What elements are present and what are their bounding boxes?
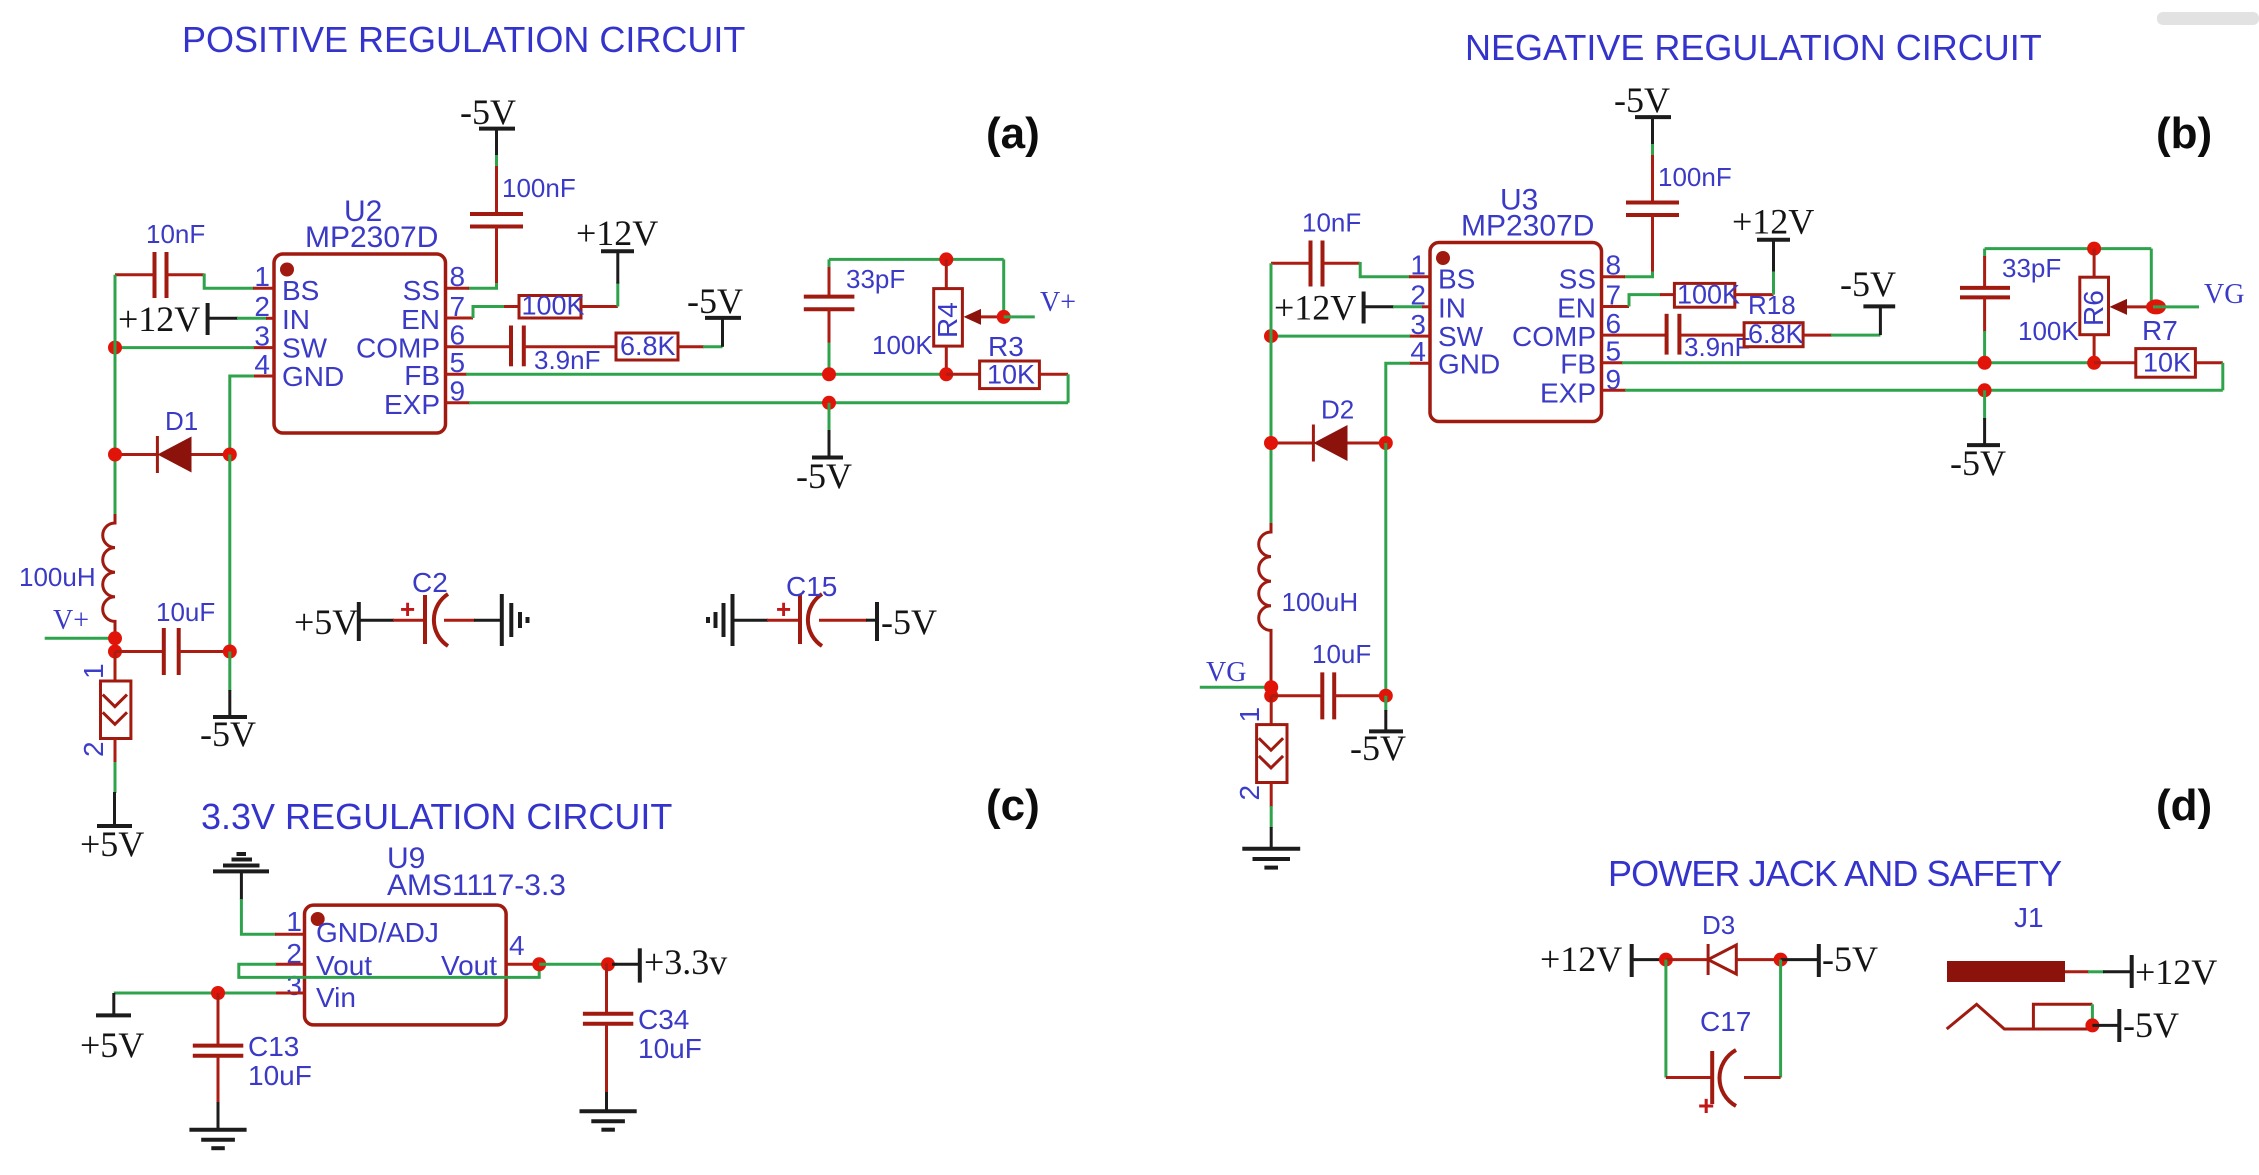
svg-text:V+: V+ [53, 605, 89, 636]
capacitor 100nF [470, 173, 576, 227]
svg-text:-5V: -5V [1822, 939, 1878, 979]
svg-text:AMS1117-3.3: AMS1117-3.3 [387, 869, 566, 902]
wire EXP net [446, 401, 1069, 404]
power +12V (left of D3) [1540, 939, 1666, 979]
power -5V (right of 6.8K) [687, 281, 743, 347]
node Vin/C13 [211, 986, 225, 1000]
resistor 100K (pin7 to +12V b) [1602, 280, 1774, 310]
svg-text:1: 1 [1234, 707, 1265, 723]
svg-text:100K: 100K [872, 330, 933, 360]
node FB/33pF [822, 367, 836, 381]
svg-text:VG: VG [1206, 657, 1246, 688]
node wiper [997, 310, 1011, 324]
svg-text:FB: FB [1560, 349, 1596, 380]
svg-text:1: 1 [78, 663, 109, 679]
wire left rail vertical (b) [1270, 263, 1273, 523]
ground (C15 left, chassis bars) [708, 594, 768, 646]
power +3.3v [612, 942, 727, 983]
svg-text:C13: C13 [248, 1031, 299, 1062]
svg-text:(d): (d) [2156, 781, 2212, 830]
node VG label [1200, 657, 1271, 688]
ground (below fuse b, earth) [1242, 827, 1300, 868]
power -5V (C15 right) [866, 602, 937, 642]
svg-text:R7: R7 [2142, 315, 2178, 346]
capacitor 10uF [115, 597, 230, 675]
svg-text:100uH: 100uH [19, 562, 96, 592]
scrollbar artifact top right [2157, 12, 2259, 25]
svg-text:C15: C15 [786, 571, 837, 602]
regulator IC U3 MP2307D [1410, 184, 1621, 422]
capacitor 33pF (b) [1960, 249, 2061, 363]
node top loop (b) [2087, 242, 2101, 256]
svg-text:10uF: 10uF [1312, 639, 1371, 669]
svg-text:SW: SW [282, 333, 328, 364]
svg-text:-5V: -5V [881, 602, 937, 642]
svg-text:+3.3v: +3.3v [644, 942, 727, 982]
ground (C2 right, chassis bars) [474, 594, 528, 646]
inductor 100uH (b) [1259, 523, 1358, 688]
node junction VG [1264, 680, 1278, 694]
wire top loop (33pF/R6) [1985, 247, 2152, 250]
power +5V (bottom of fuse) [80, 792, 144, 864]
svg-text:BS: BS [282, 275, 319, 306]
node V+ label [45, 605, 115, 638]
wire R4 wiper loop [1002, 259, 1005, 317]
fuse F2 (b) [1234, 696, 1287, 807]
svg-text:10uF: 10uF [638, 1033, 702, 1064]
svg-text:D2: D2 [1321, 395, 1354, 425]
svg-text:POWER JACK AND SAFETY: POWER JACK AND SAFETY [1608, 853, 2062, 894]
svg-text:100K: 100K [2018, 316, 2079, 346]
svg-text:COMP: COMP [1512, 321, 1596, 352]
regulator IC U2 MP2307D [254, 195, 465, 433]
capacitor 100nF (b) [1626, 162, 1732, 215]
node D3 right [1774, 953, 1788, 967]
svg-text:+: + [1698, 1090, 1714, 1121]
wire -5V to 100nF [495, 155, 498, 167]
svg-text:GND/ADJ: GND/ADJ [316, 917, 439, 948]
svg-text:-5V: -5V [200, 714, 256, 754]
node EXP drop [822, 396, 836, 410]
svg-text:FB: FB [404, 360, 440, 391]
capacitor C17 [1666, 960, 1781, 1121]
wire GND rail vertical (b) [1384, 443, 1387, 696]
svg-text:EN: EN [1557, 293, 1596, 324]
svg-text:MP2307D: MP2307D [305, 221, 438, 254]
node D2 left [1264, 436, 1278, 450]
svg-text:IN: IN [1438, 293, 1466, 324]
node top loop [939, 252, 953, 266]
svg-text:EXP: EXP [1540, 378, 1596, 409]
resistor R3 10K [946, 331, 1068, 390]
ground (C13, earth) [189, 1102, 246, 1148]
resistor 100K (pin7 to +12V) [446, 291, 618, 321]
svg-text:R6: R6 [2078, 290, 2109, 326]
node D1 left [108, 448, 122, 462]
wire FB net [446, 373, 947, 376]
svg-text:3.3V REGULATION CIRCUIT: 3.3V REGULATION CIRCUIT [201, 796, 672, 837]
potentiometer R4 100K [872, 259, 1004, 374]
power -5V (below EXP) [796, 403, 852, 496]
svg-text:1: 1 [286, 906, 302, 937]
svg-text:10K: 10K [2143, 348, 2191, 378]
svg-text:COMP: COMP [356, 333, 440, 364]
power +5V (feeding Vin) [80, 993, 144, 1065]
svg-text:4: 4 [509, 930, 525, 961]
svg-text:-5V: -5V [1950, 443, 2006, 483]
power -5V (right of 6.8K b) [1831, 264, 1896, 335]
node 10uF right [223, 645, 237, 659]
capacitor 3.9nF [446, 326, 617, 376]
resistor 6.8K [616, 331, 704, 361]
power +12V (left b) [1274, 288, 1394, 328]
svg-text:-5V: -5V [796, 456, 852, 496]
node FB/R4 [939, 367, 953, 381]
svg-text:3.9nF: 3.9nF [534, 345, 601, 375]
svg-text:(b): (b) [2156, 109, 2212, 158]
wire pin3 SW to rail (b) [1271, 335, 1430, 338]
wire top loop (33pF/R4) [829, 258, 1004, 261]
node D3 left [1659, 953, 1673, 967]
capacitor C13 10uF [193, 993, 312, 1103]
power -5V (below 10uF) [200, 652, 256, 755]
svg-text:10uF: 10uF [248, 1060, 312, 1091]
svg-text:-5V: -5V [1350, 728, 1406, 768]
svg-text:+5V: +5V [80, 1025, 144, 1065]
resistor R7 10K [2094, 315, 2223, 378]
svg-text:+12V: +12V [2135, 952, 2217, 992]
diode D3 [1666, 910, 1781, 975]
inductor 100uH [19, 514, 115, 639]
wire Vin net [114, 992, 276, 995]
svg-text:100K: 100K [1677, 280, 1740, 310]
svg-text:2: 2 [1234, 785, 1265, 801]
svg-text:+12V: +12V [118, 299, 200, 339]
svg-text:R18: R18 [1748, 290, 1796, 320]
node junction V+ [108, 631, 122, 645]
wire pin3 SW to rail [115, 346, 274, 349]
wire 10nF right to pin1 BS [167, 274, 275, 289]
wire fuse to ground (b) [1270, 806, 1273, 828]
capacitor 10nF [146, 219, 205, 298]
wire +12V to pin2 IN (b) [1393, 305, 1430, 308]
svg-text:C2: C2 [412, 567, 448, 598]
capacitor C34 10uF [583, 963, 702, 1093]
svg-text:33pF: 33pF [2002, 253, 2061, 283]
diode D1 [115, 406, 230, 473]
svg-text:MP2307D: MP2307D [1461, 210, 1594, 243]
svg-text:3: 3 [286, 970, 302, 1001]
svg-text:2: 2 [78, 741, 109, 757]
node SW rail junction (b) [1264, 329, 1278, 343]
power +12V (left) [118, 299, 238, 339]
svg-text:10uF: 10uF [156, 597, 215, 627]
node 10uF right (b) [1379, 689, 1393, 703]
svg-text:SW: SW [1438, 321, 1484, 352]
node D2 right [1379, 436, 1393, 450]
svg-text:C34: C34 [638, 1004, 689, 1035]
node SW rail junction [108, 341, 122, 355]
capacitor 10nF (b) [1302, 208, 1361, 287]
wire 100nF to pin8 SS (b) [1602, 215, 1653, 277]
node V+ (right) [1004, 287, 1076, 318]
svg-text:EN: EN [401, 304, 440, 335]
wire 10nF left to rail (b) [1271, 262, 1311, 265]
node pin4 [532, 957, 546, 971]
wire R6 wiper loop [2150, 249, 2153, 307]
fuse F1 [78, 652, 131, 764]
svg-text:8: 8 [1606, 250, 1622, 281]
power +12V (J1) [2103, 952, 2217, 992]
capacitor C15 [767, 571, 867, 646]
svg-text:SS: SS [403, 275, 440, 306]
power +12V (right of 100K) [576, 213, 658, 307]
power +12V (right of 100K b) [1732, 202, 1814, 295]
wire R7 to EXP net (b) [2221, 363, 2224, 391]
svg-text:33pF: 33pF [846, 264, 905, 294]
wire -5V to 100nF b [1651, 144, 1654, 156]
node C34 tap [601, 957, 615, 971]
diode D2 [1271, 395, 1386, 462]
svg-text:+: + [400, 594, 415, 624]
node FB/33pF (b) [1978, 356, 1992, 370]
svg-text:10nF: 10nF [1302, 208, 1361, 238]
wire +12V to pin2 IN [237, 317, 274, 320]
svg-text:-5V: -5V [1840, 264, 1896, 304]
svg-text:-5V: -5V [2123, 1005, 2179, 1045]
svg-text:GND: GND [282, 361, 344, 392]
wire pin4 GND elbow [230, 376, 274, 455]
power -5V (top, over 100nF b) [1614, 80, 1671, 145]
svg-text:R3: R3 [988, 331, 1024, 362]
svg-text:Vin: Vin [316, 982, 356, 1013]
wire pin4 to +3.3v [539, 963, 617, 966]
node EXP drop (b) [1978, 383, 1992, 397]
svg-text:IN: IN [282, 304, 310, 335]
wire EXP net (b) [1602, 389, 2223, 392]
svg-text:D1: D1 [165, 406, 198, 436]
wire GND rail vertical [228, 455, 231, 652]
svg-text:C17: C17 [1700, 1006, 1751, 1037]
node VG (right) [2153, 279, 2244, 310]
node junction 10uF (b) [1264, 689, 1278, 703]
svg-text:6.8K: 6.8K [1748, 319, 1804, 349]
svg-text:VG: VG [2204, 279, 2244, 310]
wire FB net (b) [1602, 361, 2095, 364]
node FB/R6 [2087, 356, 2101, 370]
wire fuse to +5V [114, 762, 117, 793]
svg-text:+12V: +12V [1732, 202, 1814, 242]
wire 10nF left to rail [115, 273, 155, 276]
node J1 tip [2085, 1018, 2099, 1032]
wire ground to pin1 [241, 899, 276, 934]
regulator U9 AMS1117-3.3 [275, 842, 566, 1025]
svg-text:BS: BS [1438, 264, 1475, 295]
svg-text:+5V: +5V [294, 602, 358, 642]
svg-text:6.8K: 6.8K [620, 331, 676, 361]
svg-text:EXP: EXP [384, 389, 440, 420]
svg-text:-5V: -5V [1614, 80, 1670, 120]
node wiper (b) [2146, 299, 2166, 314]
node junction 10uF [108, 645, 122, 659]
wire 10nF right to pin1 BS (b) [1323, 262, 1431, 277]
svg-text:R4: R4 [932, 302, 963, 338]
svg-text:100nF: 100nF [1658, 162, 1732, 192]
power +5V (C2 group) [294, 602, 394, 642]
svg-text:10K: 10K [987, 360, 1035, 390]
svg-text:(c): (c) [986, 781, 1040, 830]
capacitor 33pF [804, 259, 905, 374]
svg-text:100uH: 100uH [1282, 587, 1359, 617]
svg-text:-5V: -5V [460, 92, 516, 132]
svg-text:10nF: 10nF [146, 219, 205, 249]
power -5V (below 10uF b) [1350, 696, 1406, 768]
capacitor C2 [393, 567, 475, 646]
svg-text:+12V: +12V [1274, 288, 1356, 328]
svg-text:GND: GND [1438, 349, 1500, 380]
wire Vout loop (pin2 to pin4 net) [239, 964, 539, 977]
svg-text:V+: V+ [1040, 287, 1076, 318]
svg-text:NEGATIVE REGULATION CIRCUIT: NEGATIVE REGULATION CIRCUIT [1465, 27, 2042, 68]
svg-text:POSITIVE REGULATION CIRCUIT: POSITIVE REGULATION CIRCUIT [182, 19, 745, 60]
connector J1 [1947, 902, 2104, 1029]
svg-text:8: 8 [450, 261, 466, 292]
ground (C34, earth) [580, 1092, 637, 1130]
svg-text:100nF: 100nF [502, 173, 576, 203]
wire 100nF to pin8 SS [446, 227, 497, 289]
potentiometer R6 100K [2018, 249, 2152, 363]
power -5V (top, over 100nF) [460, 92, 516, 156]
wire pin4 GND elbow (b) [1386, 363, 1430, 443]
resistor R18 6.8K [1744, 290, 1832, 349]
svg-text:+5V: +5V [80, 824, 144, 864]
svg-text:+12V: +12V [576, 213, 658, 253]
power -5V (right of D3) [1781, 939, 1878, 979]
svg-text:D3: D3 [1702, 910, 1735, 940]
svg-text:SS: SS [1559, 264, 1596, 295]
wire R3 to EXP net [1067, 374, 1070, 403]
svg-text:-5V: -5V [687, 281, 743, 321]
svg-text:+12V: +12V [1540, 939, 1622, 979]
svg-text:(a): (a) [986, 109, 1040, 158]
power -5V (below EXP b) [1950, 390, 2006, 483]
svg-text:J1: J1 [2014, 902, 2044, 933]
capacitor 3.9nF (b) [1602, 314, 1751, 362]
capacitor 10uF (b) [1271, 639, 1386, 719]
node D1 right [223, 448, 237, 462]
svg-text:100K: 100K [522, 291, 585, 321]
wire left rail vertical [114, 275, 117, 515]
ground (above U9, inverted earth) [213, 854, 269, 900]
power -5V (J1) [2092, 1005, 2179, 1045]
